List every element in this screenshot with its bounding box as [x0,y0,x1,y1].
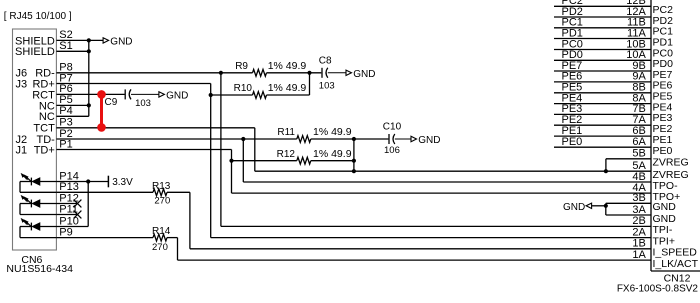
pin P3 label [33,117,72,135]
wire P2 TD- [56,138,296,140]
ground symbol C9 [159,91,188,102]
pin name PE2 (7A) inside CN12 [653,123,673,135]
wire PD1 pin 11A [554,27,651,39]
svg-text:P9: P9 [59,226,72,238]
junction P2/TPO- [241,137,245,141]
LED DS1 (speed) [20,173,56,192]
svg-text:GND: GND [653,213,677,225]
wire R12 in [232,160,297,162]
svg-text:GND: GND [653,201,677,213]
svg-text:6A: 6A [632,136,646,148]
pin P4 label [39,105,73,123]
LED DS3 (link/act) [20,218,56,238]
pin name PC1 (11B) inside CN12 [653,26,674,38]
svg-text:R10: R10 [234,83,253,94]
pin number 1A [632,249,646,261]
wire GND to 3B/3A [592,203,651,215]
label FX6-100S-0.8SV2 [617,283,699,294]
capacitor C8 103 [319,55,335,91]
pin P13 label [59,181,79,193]
svg-text:1% 49.9: 1% 49.9 [313,148,352,160]
wire P11 stub [56,214,77,216]
svg-text:GND: GND [166,91,188,102]
svg-text:2A: 2A [632,226,646,238]
svg-text:270: 270 [154,195,170,206]
pin name PE6 (9A) inside CN12 [653,80,673,92]
pin P14 label [59,170,79,182]
wire R12 out [311,160,354,162]
wire RD+ to TPI+ [211,237,651,239]
no-connect X P11 [74,211,82,219]
pin name GND (3B) inside CN12 [653,201,677,213]
svg-text:3A: 3A [632,204,646,216]
pin number 3A [632,204,646,216]
label CN6 [21,254,42,266]
svg-text:106: 106 [384,145,400,156]
svg-text:S1: S1 [59,40,72,52]
wire R10 riser [309,73,311,95]
wire C9 to GND [131,93,159,95]
svg-text:R13: R13 [152,181,171,192]
svg-text:103: 103 [319,80,335,91]
svg-text:ZVREG: ZVREG [653,157,689,169]
pin P7 label [16,72,73,90]
svg-text:R9: R9 [235,61,248,72]
title [ RJ45 10/100 ] [4,11,72,22]
svg-text:3.3V: 3.3V [112,177,133,188]
svg-text:3B: 3B [632,192,645,204]
junction R10 tap [209,93,213,97]
pin P9 label [59,226,72,238]
wire P10 to 3.3V bus [40,226,88,228]
junction P5 [87,103,91,107]
svg-text:TD+: TD+ [34,144,55,156]
junction ZVREG [352,169,356,173]
connector CN6 RJ45 jack body [13,29,57,250]
pin P12 label [59,192,79,204]
pin name PD0 (10A) inside CN12 [653,58,674,70]
pin P8 label [16,62,73,80]
svg-text:R14: R14 [152,226,171,237]
label CN12 [664,272,691,284]
pin number 2B [632,215,645,227]
ground symbol CN12 [563,202,592,213]
svg-text:PE0: PE0 [562,136,583,148]
junction R12 out [352,159,356,163]
wire P6 RCT [56,93,124,95]
LED DS2 (unused) [20,195,56,215]
wire PC0 pin 10B [554,38,651,50]
ground symbol (shield) [103,37,132,48]
pin name PD2 (12A) inside CN12 [653,15,674,27]
svg-text:TCT: TCT [33,123,55,135]
pin P2 label [16,128,73,146]
wire R13 to I_SPEED [167,192,651,249]
svg-text:R12: R12 [277,149,296,160]
svg-text:270: 270 [152,242,168,253]
pin name ZVREG (5A) inside CN12 [653,169,689,181]
junction R11/C10 [352,137,356,141]
pin P6 label [32,83,73,101]
pin name PE1 (6B) inside CN12 [653,134,673,146]
svg-text:P13: P13 [59,181,79,193]
junction R9/R10/C8 [307,71,311,75]
label NU1S516-434 [6,263,73,275]
wire P8 RD- [56,72,252,74]
svg-text:I_SPEED: I_SPEED [653,247,698,259]
svg-text:1% 49.9: 1% 49.9 [313,126,352,138]
wire PE2 pin 7A [554,114,651,126]
power symbol 3.3V [108,176,133,188]
capacitor C9 103 [105,89,151,108]
svg-text:1B: 1B [632,238,645,250]
junction P8/TPI- [219,71,223,75]
wire PE1 pin 6B [554,125,651,137]
pin P10 label [59,215,79,227]
pin name TPI+ (2A) inside CN12 [653,235,675,247]
pin number 5B [632,148,645,160]
red highlight C9 tie RCT-TCT [97,90,106,132]
svg-text:2B: 2B [632,215,645,227]
wire PD2 pin 12A [554,6,651,18]
svg-text:103: 103 [135,98,151,109]
pin P1 label [16,138,73,156]
svg-text:P3: P3 [59,117,72,129]
wire R11 out [311,138,389,140]
svg-text:GND: GND [110,37,132,48]
svg-text:P4: P4 [59,105,72,117]
wire R10 out [267,94,310,96]
svg-text:[ RJ45 10/100 ]: [ RJ45 10/100 ] [4,11,72,22]
pin name PE0 (6A) inside CN12 [653,145,673,157]
svg-text:J1: J1 [16,144,28,156]
pin name PE3 (7B) inside CN12 [653,112,673,124]
junction S2 [87,38,91,42]
pin name PC2 (12B) inside CN12 [653,4,674,16]
wire P4 stub [56,115,88,117]
pin number 1B [632,238,645,250]
svg-text:FX6-100S-0.8SV2: FX6-100S-0.8SV2 [617,283,699,294]
wire PE4 pin 8A [554,92,651,104]
ground symbol C8 [346,69,375,80]
wire S1 stub [56,50,88,52]
wire RD- to TPI- [221,73,651,227]
pin S1 label [15,40,73,58]
wire PC1 pin 11B [554,17,651,29]
svg-text:NC: NC [39,111,55,123]
wire PE0 pin 6A [554,136,651,148]
junction 3.3V [86,179,90,183]
pin number 4B [632,171,645,183]
resistor R9 1% 49.9 [235,60,306,76]
pin name PC0 (10B) inside CN12 [653,47,674,59]
svg-text:GND: GND [353,69,375,80]
wire R11/R12 junction riser [353,139,355,171]
pin name TPO+ (4A) inside CN12 [653,191,681,203]
svg-text:C9: C9 [105,97,118,108]
wire P9 to R14 [56,237,153,239]
svg-text:PE0: PE0 [653,145,673,157]
wire PE3 pin 7B [554,103,651,115]
pin name TPI- (2B) inside CN12 [653,224,673,236]
pin name PE4 (8A) inside CN12 [653,101,673,113]
wire shield vertical bus [88,40,90,116]
junction S1 [87,49,91,53]
resistor R11 1% 49.9 [277,126,351,142]
wire P5 stub [56,104,88,106]
pin number 3B [632,192,645,204]
connector CN12 body [651,0,700,271]
no-connect X P12 [74,200,82,208]
wire PE6 pin 9A [554,71,651,83]
pin number 2A [632,226,646,238]
svg-text:GND: GND [563,202,585,213]
junction R12 tap [229,159,233,163]
wire P3 TCT to ZVREG [56,128,651,171]
pin S2 label [15,29,73,47]
pin name I_LK/ACT (1A) inside CN12 [653,258,699,270]
wire PC2 pin 12B [554,0,651,7]
svg-text:P1: P1 [59,138,72,150]
svg-text:R11: R11 [277,127,295,138]
wire ZVREG 5B bracket [606,159,651,171]
wire 3.3V bus down [87,182,89,227]
pin name I_SPEED (1B) inside CN12 [653,247,698,259]
junction GND tap [604,204,608,208]
resistor R10 1% 49.9 [234,82,307,98]
pin name ZVREG (5B) inside CN12 [653,157,689,169]
wire R9 out [267,72,322,74]
pin name PE7 (9B) inside CN12 [653,69,673,81]
svg-text:1A: 1A [632,249,646,261]
pin number 4A [632,182,646,194]
wire P7 RD+ [56,84,210,238]
wire R14 to I_LK/ACT [167,238,651,261]
wire PD0 pin 10A [554,49,651,61]
pin name TPO- (4B) inside CN12 [653,180,679,192]
resistor R12 1% 49.9 [277,148,352,164]
svg-text:J3: J3 [16,78,28,90]
pin P11 label [59,203,78,215]
junction ZVREG 5A [604,169,608,173]
svg-text:C8: C8 [319,55,332,66]
svg-text:SHIELD: SHIELD [15,46,55,58]
wire P1 TD+ [56,150,651,194]
wire P12 stub [40,203,78,205]
wire C10 to GND [395,138,411,140]
svg-text:TPI-: TPI- [653,224,673,236]
svg-text:NU1S516-434: NU1S516-434 [6,263,73,275]
pin name PE5 (8B) inside CN12 [653,91,673,103]
pin name PD1 (11A) inside CN12 [653,36,674,48]
svg-text:5B: 5B [632,148,645,160]
pin P5 label [39,94,73,112]
wire PE5 pin 8B [554,82,651,94]
capacitor C10 106 [383,121,402,156]
wire PE7 pin 9B [554,60,651,72]
resistor R13 270 [152,181,171,207]
svg-text:GND: GND [418,135,440,146]
svg-text:C10: C10 [383,121,402,132]
pin name GND (3A) inside CN12 [653,213,677,225]
wire P14 to 3.3V [40,181,108,183]
svg-text:1% 49.9: 1% 49.9 [268,82,307,94]
ground symbol C10 [411,135,440,146]
wire P13 to R13 [56,191,153,193]
svg-text:TPI+: TPI+ [653,235,675,247]
svg-text:I_LK/ACT: I_LK/ACT [653,258,699,270]
pin number 5A [632,160,646,172]
resistor R14 270 [152,226,171,253]
wire C8 to GND [328,72,346,74]
wire R10 in [211,94,253,96]
svg-text:1% 49.9: 1% 49.9 [268,60,307,72]
wire S2 to GND [56,39,103,41]
wire TD- to TPO- [243,139,651,182]
